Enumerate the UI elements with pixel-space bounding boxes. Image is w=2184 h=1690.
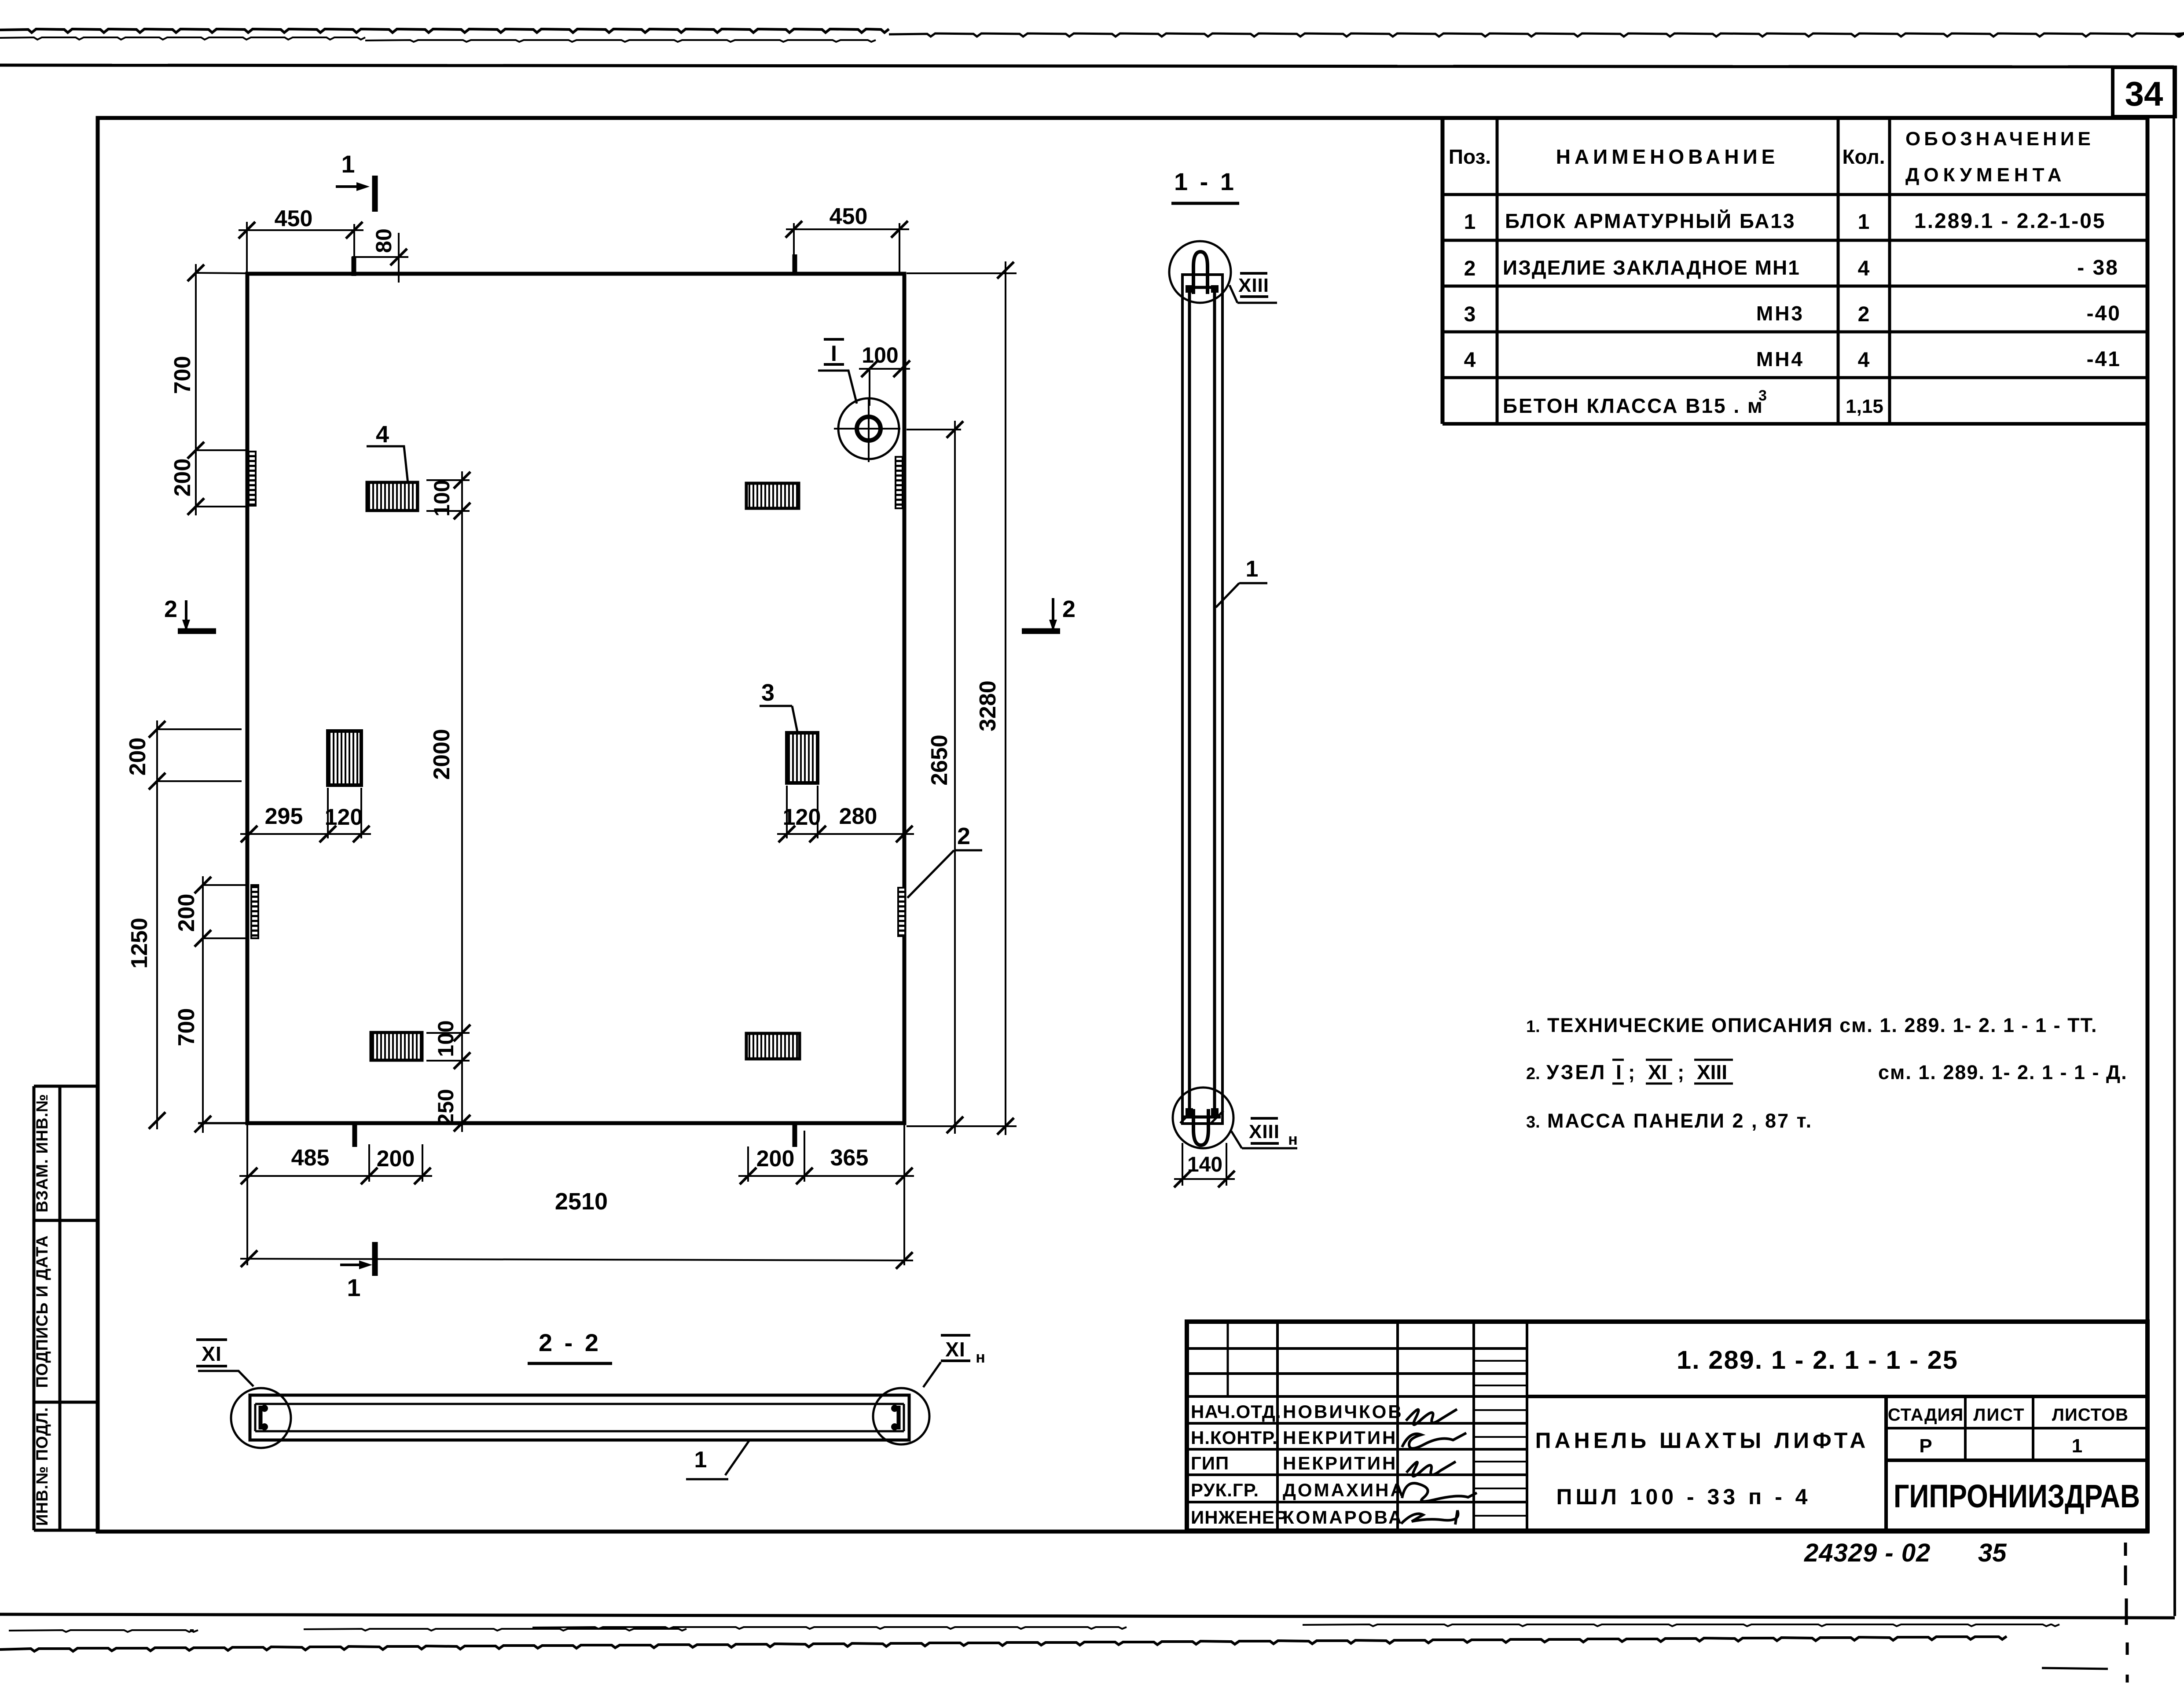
- label XIII н with leader: [1231, 1118, 1298, 1148]
- svg-text:1 - 1: 1 - 1: [1174, 168, 1237, 195]
- svg-text:365: 365: [830, 1145, 869, 1171]
- svg-text:ВЗАМ. ИНВ.№: ВЗАМ. ИНВ.№: [33, 1094, 51, 1212]
- svg-text:1: 1: [347, 1274, 360, 1301]
- detail circle XIII н (bottom): [1173, 1087, 1233, 1148]
- svg-text:;: ;: [1628, 1061, 1635, 1084]
- svg-text:ЛИСТ: ЛИСТ: [1973, 1405, 2025, 1425]
- svg-text:ИЗДЕЛИЕ ЗАКЛАДНОЕ МН1: ИЗДЕЛИЕ ЗАКЛАДНОЕ МН1: [1503, 256, 1800, 279]
- svg-text:ИНВ.№ ПОДЛ.: ИНВ.№ ПОДЛ.: [33, 1407, 51, 1526]
- svg-text:2: 2: [164, 596, 177, 622]
- page number box 34: [2113, 67, 2175, 117]
- detail circle XI (left): [231, 1388, 291, 1448]
- dim 3280 (far right): [907, 261, 1017, 1135]
- dim row 485/200 (bottom left): [239, 1123, 432, 1184]
- svg-text:450: 450: [275, 206, 313, 231]
- title: ПШЛ 100-33п-4: [1556, 1484, 1811, 1509]
- svg-text:200: 200: [125, 738, 150, 776]
- edge plate MH1 right-upper: [896, 457, 903, 508]
- title block outer box: [1187, 1322, 2147, 1531]
- svg-text:200: 200: [170, 459, 195, 497]
- svg-text:2.: 2.: [1526, 1065, 1540, 1083]
- svg-text:450: 450: [830, 204, 868, 229]
- leader 1 (section 1-1): [1216, 556, 1267, 607]
- svg-text:ДОМАХИНА: ДОМАХИНА: [1283, 1480, 1406, 1500]
- svg-text:2 - 2: 2 - 2: [539, 1329, 601, 1356]
- section 2-2 right end bar: [891, 1405, 899, 1430]
- svg-text:200: 200: [377, 1146, 415, 1172]
- svg-text:100: 100: [433, 1020, 458, 1057]
- svg-text:XIII: XIII: [1697, 1061, 1727, 1084]
- svg-text:35: 35: [1978, 1539, 2007, 1567]
- note 1: технические описания: [1526, 1014, 2098, 1036]
- section 2-2 panel body: [250, 1395, 909, 1440]
- svg-text:Н.КОНТР.: Н.КОНТР.: [1191, 1427, 1278, 1448]
- svg-text:НЕКРИТИН: НЕКРИТИН: [1283, 1427, 1397, 1448]
- svg-text:34: 34: [2125, 74, 2163, 113]
- svg-text:2650: 2650: [927, 735, 952, 786]
- table row 3: МН3: [1464, 302, 2121, 326]
- section 1-1 bottom anchor bar: [1180, 1108, 1223, 1123]
- svg-text:3: 3: [1464, 303, 1476, 326]
- tick mark on top edge at right 450: [793, 254, 797, 273]
- detail circle XI н (right): [873, 1388, 929, 1444]
- left outer chain 200/1250: [125, 720, 242, 1129]
- svg-text:4: 4: [1464, 349, 1476, 372]
- dim 140 (section 1-1): [1174, 1143, 1235, 1187]
- label I with leader: [818, 339, 857, 404]
- section 2-2 title: [528, 1329, 612, 1363]
- ГИПРОНИИЗДРАВ: [1894, 1478, 2140, 1514]
- svg-text:280: 280: [839, 804, 877, 829]
- svg-text:- 38: - 38: [2077, 256, 2119, 279]
- bottom-left extension of panel edge: [198, 1123, 247, 1265]
- embedded plate MH4 top-left (item 4): [367, 482, 418, 511]
- svg-text:НОВИЧКОВ: НОВИЧКОВ: [1283, 1401, 1403, 1422]
- section 1-1 bottom lifting loop: [1193, 1109, 1208, 1145]
- svg-text:24329 - 02: 24329 - 02: [1804, 1539, 1931, 1567]
- note 2: узел I XI XIII: [1526, 1060, 2128, 1084]
- section 1-1 top lifting loop: [1193, 252, 1208, 294]
- svg-text:120: 120: [783, 805, 821, 830]
- svg-text:РУК.ГР.: РУК.ГР.: [1191, 1480, 1259, 1500]
- title: Панель шахты лифта: [1535, 1428, 1869, 1453]
- right page edge line: [2174, 66, 2175, 1616]
- dim 100 (hole to edge): [859, 343, 910, 406]
- section 1-1 top anchor bar: [1186, 285, 1219, 293]
- left chain 700/200 (upper): [170, 264, 249, 515]
- svg-text:ЛИСТОВ: ЛИСТОВ: [2052, 1405, 2129, 1425]
- signatures (squiggles): [1401, 1409, 1477, 1525]
- label XI н with leader: [923, 1335, 985, 1387]
- svg-text:1: 1: [2072, 1435, 2082, 1457]
- svg-text:2: 2: [1062, 596, 1075, 622]
- svg-text:-41: -41: [2087, 348, 2121, 371]
- svg-text:XIII: XIII: [1238, 275, 1269, 296]
- svg-text:I: I: [1616, 1061, 1622, 1084]
- svg-text:1.: 1.: [1526, 1018, 1540, 1036]
- bottom page edge line: [0, 1614, 2175, 1618]
- svg-text:XI: XI: [202, 1342, 221, 1365]
- svg-text:1,15: 1,15: [1846, 396, 1883, 417]
- label XIII with leader: [1230, 273, 1277, 303]
- dim row 200/365 (bottom right): [738, 1125, 914, 1184]
- label 4 with leader: [367, 421, 408, 483]
- svg-text:-40: -40: [2087, 302, 2121, 325]
- embedded plate MH4 top-right: [746, 483, 799, 508]
- svg-text:2: 2: [1464, 257, 1476, 280]
- table row 1: Блок арматурный БА13: [1464, 209, 2106, 234]
- svg-text:120: 120: [325, 805, 363, 830]
- svg-text:2510: 2510: [555, 1188, 608, 1215]
- svg-text:ПОДПИСЬ И ДАТА: ПОДПИСЬ И ДАТА: [33, 1235, 51, 1388]
- parts table header: [1449, 128, 2094, 186]
- svg-text:МАССА ПАНЕЛИ 2 , 87 т.: МАССА ПАНЕЛИ 2 , 87 т.: [1547, 1110, 1813, 1132]
- svg-text:ОБОЗНАЧЕНИЕ: ОБОЗНАЧЕНИЕ: [1905, 128, 2094, 150]
- svg-text:МН3: МН3: [1756, 302, 1804, 325]
- svg-text:80: 80: [371, 228, 396, 253]
- svg-text:200: 200: [174, 894, 199, 932]
- top page torn edge wavy line: [0, 29, 2184, 42]
- svg-text:1. 289. 1 - 2. 1 - 1 - 25: 1. 289. 1 - 2. 1 - 1 - 25: [1677, 1346, 1958, 1374]
- table row 2: Изделие закладное МН1: [1464, 256, 2119, 280]
- svg-text:XI: XI: [1648, 1061, 1667, 1084]
- left strip label Инв.№ подл.: [33, 1407, 51, 1526]
- section mark 1 (top): [336, 150, 375, 212]
- label 2 with leader: [907, 823, 982, 898]
- svg-text:250: 250: [433, 1089, 458, 1125]
- svg-text:ПАНЕЛЬ ШАХТЫ ЛИФТА: ПАНЕЛЬ ШАХТЫ ЛИФТА: [1535, 1428, 1869, 1453]
- svg-text:ГИП: ГИП: [1191, 1453, 1229, 1473]
- left attribute strip boxes: [34, 1086, 98, 1530]
- svg-text:н: н: [976, 1348, 985, 1366]
- svg-text:XIII: XIII: [1249, 1121, 1280, 1143]
- svg-text:1: 1: [1858, 210, 1870, 234]
- top page edge line: [0, 65, 2174, 67]
- dim 120/280 (right MH3): [777, 786, 914, 842]
- note 3: масса панели: [1526, 1110, 1813, 1132]
- embedded plate MH4 bottom-right: [746, 1033, 800, 1059]
- dim 2650 (right): [907, 421, 963, 1134]
- center dim chain 100 2000 100 250: [426, 471, 470, 1132]
- handwritten 24329-02 35: [1804, 1539, 2007, 1567]
- label XI with leader: [196, 1340, 253, 1386]
- svg-text:2: 2: [957, 823, 970, 849]
- svg-text:НАЧ.ОТД.: НАЧ.ОТД.: [1191, 1401, 1281, 1422]
- svg-text:ИНЖЕНЕР: ИНЖЕНЕР: [1191, 1507, 1288, 1528]
- svg-text:1: 1: [694, 1447, 707, 1473]
- svg-text:4: 4: [1858, 257, 1870, 280]
- label 3 with leader: [760, 680, 797, 732]
- svg-text:200: 200: [756, 1146, 795, 1172]
- svg-text:Р: Р: [1919, 1435, 1932, 1457]
- svg-text:3.: 3.: [1526, 1113, 1540, 1132]
- leader 1 (section 2-2): [686, 1441, 749, 1479]
- svg-text:ТЕХНИЧЕСКИЕ ОПИСАНИЯ см. 1.: ТЕХНИЧЕСКИЕ ОПИСАНИЯ см. 1. 289. 1- 2. 1…: [1547, 1014, 2098, 1036]
- стадия лист листов grid: [1886, 1396, 2147, 1460]
- section mark 2 (left): [164, 596, 216, 631]
- tick mark on top edge at 450: [352, 257, 356, 276]
- section mark 1 (bottom): [340, 1242, 375, 1301]
- svg-text:4: 4: [376, 421, 389, 448]
- section 2-2 left end bar: [261, 1405, 268, 1430]
- signature rows text: [1191, 1401, 1406, 1528]
- svg-text:2000: 2000: [429, 729, 455, 780]
- svg-text:см. 1. 289. 1- 2. 1 - 1 - Д.: см. 1. 289. 1- 2. 1 - 1 - Д.: [1878, 1061, 2128, 1084]
- edge plate MH1 right-lower (item 2): [898, 888, 905, 936]
- svg-text:4: 4: [1858, 349, 1870, 372]
- bottom torn edge wavy lines: [0, 1624, 2059, 1651]
- svg-text:1250: 1250: [127, 918, 152, 969]
- left strip label Взам. инв.№: [33, 1094, 51, 1212]
- title block signature grid: [1187, 1322, 1527, 1531]
- panel outline (plan view): [247, 274, 904, 1123]
- svg-text:н: н: [1288, 1130, 1298, 1148]
- svg-text:ГИПРОНИИЗДРАВ: ГИПРОНИИЗДРАВ: [1894, 1478, 2140, 1514]
- svg-text:700: 700: [174, 1008, 199, 1047]
- dim 80 top-left (rotated): [352, 228, 408, 283]
- svg-text:УЗЕЛ: УЗЕЛ: [1546, 1061, 1606, 1084]
- dim 295/120 (left MH3): [240, 788, 371, 842]
- table row 5: Бетон класса B15: [1503, 387, 1883, 417]
- bottom right dashed page corner: [2042, 1543, 2127, 1683]
- embedded plate MH3 middle-right (item 3): [787, 733, 818, 783]
- edge plate MH1 left-upper: [249, 452, 256, 506]
- hole with detail circle I: [834, 398, 900, 462]
- svg-text:КОМАРОВА: КОМАРОВА: [1283, 1507, 1403, 1528]
- svg-text:700: 700: [170, 356, 195, 394]
- svg-text:СТАДИЯ: СТАДИЯ: [1888, 1405, 1964, 1425]
- svg-text:3280: 3280: [975, 680, 1001, 731]
- svg-text:1: 1: [1246, 556, 1259, 582]
- drawing frame border: [98, 118, 2147, 1532]
- embedded plate MH3 middle-left: [328, 731, 361, 785]
- svg-text:I: I: [831, 341, 837, 366]
- svg-text:Поз.: Поз.: [1449, 145, 1491, 168]
- section 1-1 panel body: [1182, 275, 1222, 1124]
- dim 450 top-left: [239, 206, 363, 274]
- dim 450 top-right: [786, 204, 909, 272]
- svg-text:295: 295: [265, 804, 303, 829]
- svg-text:140: 140: [1187, 1153, 1222, 1176]
- dim 2510 (bottom overall): [240, 1123, 913, 1269]
- svg-text:БЕТОН КЛАССА В15 . м: БЕТОН КЛАССА В15 . м: [1503, 394, 1764, 417]
- svg-text:100: 100: [862, 343, 898, 367]
- svg-text:1: 1: [341, 150, 355, 178]
- left strip label Подпись и дата: [33, 1235, 51, 1388]
- left mid chain 200/700: [174, 876, 249, 1133]
- table row 4: МН4: [1464, 348, 2121, 372]
- parts table grid: [1443, 118, 2147, 424]
- svg-text:XI: XI: [945, 1338, 965, 1361]
- svg-text:МН4: МН4: [1756, 348, 1804, 371]
- svg-text:1.289.1 - 2.2-1-05: 1.289.1 - 2.2-1-05: [1914, 209, 2106, 233]
- section mark 2 (right): [1022, 596, 1075, 631]
- svg-text:485: 485: [291, 1145, 330, 1171]
- svg-text:НЕКРИТИН: НЕКРИТИН: [1283, 1453, 1397, 1473]
- svg-text:ДОКУМЕНТА: ДОКУМЕНТА: [1905, 164, 2066, 186]
- edge plate MH1 left-lower: [251, 885, 258, 938]
- svg-text:1: 1: [1464, 210, 1476, 234]
- svg-text:3: 3: [761, 680, 774, 706]
- svg-text:НАИМЕНОВАНИЕ: НАИМЕНОВАНИЕ: [1556, 145, 1779, 168]
- svg-text:3: 3: [1758, 387, 1767, 404]
- svg-text:2: 2: [1858, 303, 1870, 326]
- section 1-1 title: [1171, 168, 1239, 203]
- svg-text:;: ;: [1677, 1061, 1684, 1084]
- title block main divider lines: [1527, 1396, 2147, 1531]
- svg-text:100: 100: [429, 480, 454, 516]
- detail circle XIII (top): [1169, 241, 1231, 303]
- svg-text:ПШЛ 100 - 33 п - 4: ПШЛ 100 - 33 п - 4: [1556, 1484, 1811, 1509]
- svg-text:Кол.: Кол.: [1842, 145, 1885, 168]
- title block designation 1.289.1-2.1-1-25: [1677, 1346, 1958, 1374]
- svg-text:БЛОК АРМАТУРНЫЙ БА13: БЛОК АРМАТУРНЫЙ БА13: [1505, 209, 1796, 232]
- embedded plate MH4 bottom-left: [371, 1032, 422, 1060]
